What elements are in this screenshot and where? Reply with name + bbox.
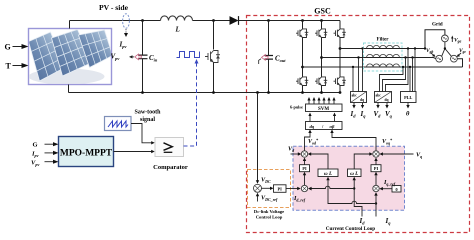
wire Id sum to PI [304, 174, 306, 185]
wire boost switch emitter [213, 63, 215, 93]
Cin red voltage arrow [135, 54, 142, 60]
Id input wire [354, 179, 362, 217]
svg-text:T: T [6, 62, 12, 71]
dq-alphabeta block [306, 122, 343, 130]
transistor S6 [315, 77, 327, 86]
voltage sense tap c [402, 66, 404, 68]
diode D1 [230, 16, 239, 25]
capacitor Cin [138, 55, 148, 59]
omega-L block left [318, 169, 338, 177]
wire PI to Vod sum [304, 160, 306, 165]
svg-text:PI: PI [277, 187, 282, 192]
Voq star output wire [332, 132, 376, 151]
wire Iq sum to PI [375, 174, 377, 185]
wire Cin branch lower [142, 59, 144, 93]
dc-link control box [248, 170, 291, 208]
junction Cin top [141, 19, 144, 22]
capacitor Cout [265, 56, 274, 60]
wire omegaL right to Voq sum [354, 154, 370, 169]
voltage sense tap b [404, 56, 406, 58]
PLL tap b [411, 56, 413, 58]
svg-text:G: G [5, 43, 11, 52]
wire boost switch collector [213, 21, 215, 50]
Vd feedforward arrow [291, 153, 299, 155]
summing node d-axis current [301, 185, 307, 191]
svg-text:abc: abc [376, 94, 382, 98]
PLL block [401, 92, 417, 103]
theta output arrow [407, 103, 409, 107]
Cout probe elbow [259, 59, 261, 64]
svg-text:PV - side: PV - side [99, 3, 129, 12]
svg-text:GSC: GSC [314, 7, 331, 16]
Id Iq output arrows [353, 103, 355, 107]
grid source Vgb [436, 55, 443, 62]
svg-text:dq: dq [385, 98, 389, 102]
Vd Vq output arrows [377, 103, 379, 107]
wire bottom rail [69, 92, 341, 94]
grid wire phase C riser [457, 59, 462, 67]
Iq feedback junction [375, 202, 377, 204]
current sense tap c [352, 66, 354, 68]
svg-text:dq: dq [310, 124, 315, 129]
svg-text:ω L: ω L [350, 171, 358, 177]
gate pulse icon [177, 52, 200, 58]
VDC ref arrow [257, 195, 259, 202]
current sense tap b [357, 56, 359, 58]
PI block dc [262, 187, 272, 189]
svg-text:Control Loop: Control Loop [256, 215, 283, 220]
wire PI to Voq sum [375, 160, 377, 165]
current probe ellipse [123, 14, 130, 28]
summing node dc [254, 184, 262, 192]
svg-text:Filter: Filter [377, 38, 390, 43]
Id feedback wire with hop [311, 186, 355, 188]
wire sawtooth to comparator [131, 124, 152, 143]
Vod star output wire [305, 132, 311, 151]
svg-text:αβ: αβ [330, 124, 336, 129]
svg-text:SVM: SVM [318, 107, 329, 112]
Iq feedback wire with hop [328, 179, 376, 204]
Cout red voltage arrow [262, 55, 269, 61]
Vq feedforward arrow [382, 153, 414, 155]
svg-text:PI: PI [302, 166, 307, 171]
inverter leg A rail drop [301, 19, 304, 22]
svg-text:Saw-tooth: Saw-tooth [134, 110, 161, 116]
transistor S5 [334, 29, 346, 38]
filter inductor phase A [367, 45, 400, 48]
transistor S4 [296, 77, 308, 86]
svg-text:L: L [175, 26, 180, 34]
wire Cout branch upper [268, 21, 270, 56]
transistor S1 [296, 29, 308, 38]
grid source Vgc [451, 55, 458, 62]
wire rail L to diode [193, 20, 230, 22]
svg-text:abc: abc [352, 94, 358, 98]
grid source Vga [442, 35, 449, 42]
wire legs middle [302, 38, 304, 77]
grid wire phase A riser [425, 30, 445, 49]
wire mppt to comparator [114, 151, 153, 153]
filter inductor phase B [367, 54, 400, 57]
wire PV bottom to rail [68, 85, 70, 93]
phase B tap [320, 56, 323, 59]
comparator block [155, 138, 184, 157]
phase C tap [301, 66, 304, 69]
junction Cout top [267, 19, 270, 22]
SVM block [306, 104, 343, 112]
voltage sense tap a [407, 47, 409, 49]
saw-tooth generator block [105, 117, 132, 131]
PV array box [29, 29, 113, 85]
gate drive dashed wire [184, 63, 197, 147]
wire Cin branch upper [142, 21, 144, 56]
svg-text:dq: dq [360, 98, 364, 102]
transistor Q1 boost IGBT [205, 51, 220, 63]
Iq input wire [375, 195, 377, 217]
Vga label [451, 37, 453, 42]
svg-text:0: 0 [395, 187, 397, 192]
grid Y node [442, 42, 452, 57]
inductor L boost [161, 16, 193, 21]
svg-text:Grid: Grid [432, 22, 443, 28]
abc-dq block voltages [375, 92, 392, 103]
GSC dashed boundary box [247, 16, 470, 233]
current sense tap a [361, 47, 363, 49]
summing node Vod [301, 151, 307, 157]
svg-text:PI: PI [374, 166, 379, 171]
svg-text:PLL: PLL [404, 95, 412, 100]
svg-text:Current Control Loop: Current Control Loop [326, 226, 375, 232]
summing node Voq [373, 151, 379, 157]
input G arrow [13, 46, 25, 48]
PI block d [300, 165, 310, 172]
transistor S3 [315, 29, 327, 38]
PLL tap a [414, 47, 416, 49]
phase A tap [339, 47, 342, 50]
filter box [364, 43, 403, 71]
Id feedback junction [353, 187, 355, 189]
current control loop box [293, 146, 405, 210]
PI block q [371, 165, 381, 172]
transistor S2 [334, 77, 346, 86]
svg-text:G: G [33, 142, 38, 149]
input T arrow [13, 65, 25, 67]
abc-dq block currents [351, 92, 367, 103]
Iq_ref zero block [392, 186, 401, 193]
svg-text:Comparator: Comparator [153, 164, 188, 171]
junction boost switch top [212, 19, 215, 22]
VDC sense wire [256, 91, 259, 94]
svg-text:MPO-MPPT: MPO-MPPT [60, 149, 113, 159]
wire omegaL left to Vod sum [310, 154, 328, 169]
wire PV top to DC rail [69, 21, 71, 29]
wire dc PI to Idref [286, 188, 298, 190]
probe arrow to Ipv [125, 29, 127, 34]
omega-L block right [348, 169, 362, 177]
filter inductor phase C [367, 64, 400, 67]
wire rail diode to inverter [239, 20, 341, 22]
svg-text:Dc-link Voltage: Dc-link Voltage [254, 209, 284, 214]
MPO-MPPT block [59, 137, 114, 167]
PLL tap c [409, 66, 411, 68]
wire Cout branch lower [268, 59, 270, 92]
wire top DC rail left [70, 20, 161, 22]
svg-text:6-pulse: 6-pulse [290, 105, 303, 110]
dq-ab to SVM arrows [309, 115, 311, 122]
svg-text:signal: signal [140, 117, 155, 123]
summing node q-axis current [373, 185, 379, 191]
SVM gate arrows [309, 100, 334, 105]
svg-text:ω L: ω L [324, 171, 332, 177]
Vpv measure arrow [132, 56, 135, 58]
